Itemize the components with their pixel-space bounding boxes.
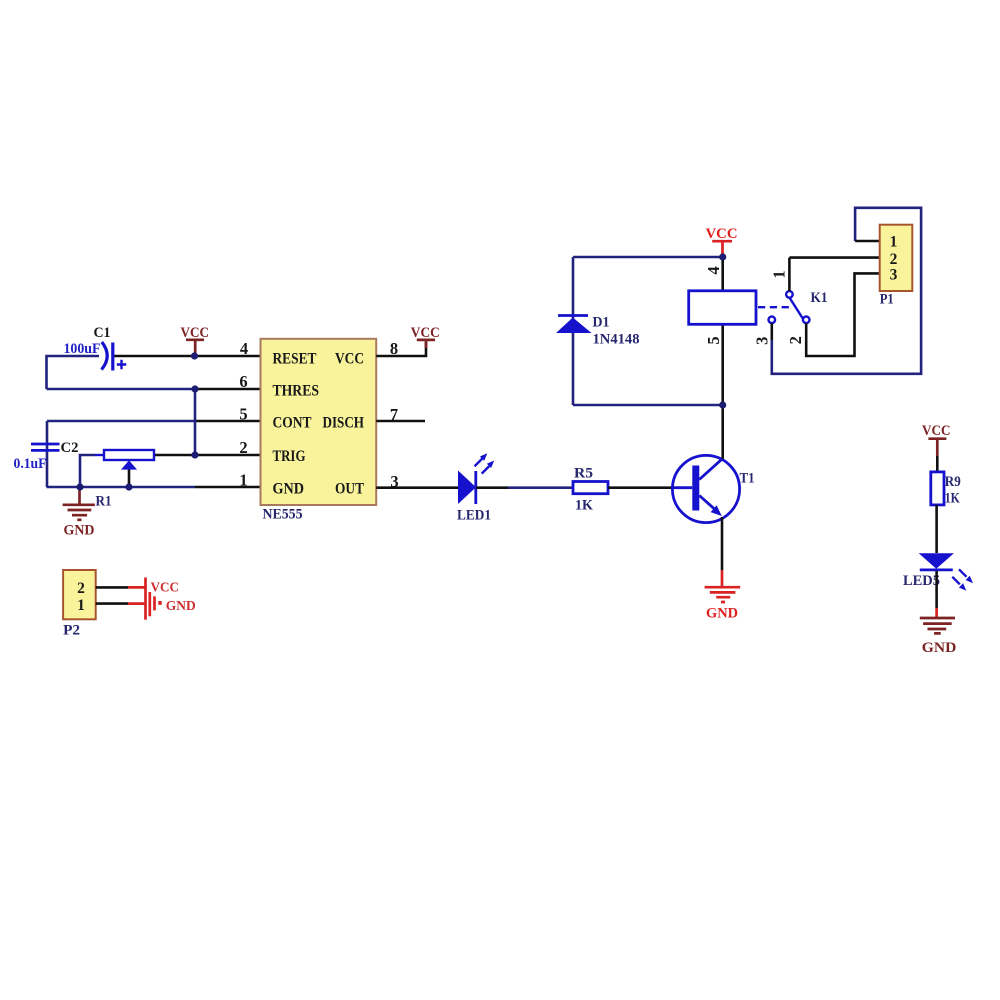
svg-text:NE555: NE555 [263,507,303,523]
svg-text:1K: 1K [945,491,960,507]
wire THRES to TRIG vertical [194,389,197,455]
wire RESET rail navy left of VCC junction [114,355,195,358]
switch K1 contacts [769,291,810,323]
wire R9 to LED5 [935,505,938,553]
relay K1 coil [689,291,756,325]
node junction pot left on GND rail [76,483,83,490]
wire switch pin3 loop to P1 pin1 [772,208,921,374]
svg-text:5: 5 [239,405,247,424]
svg-text:4: 4 [704,266,723,274]
LED LED5 [919,553,973,591]
svg-text:VCC: VCC [335,351,364,368]
transistor Q1 T1 [672,455,739,522]
power VCC at relay [706,226,738,257]
capacitor C2 [31,444,60,450]
wire CONT pin stub black to pin 5 [195,420,261,423]
svg-text:R5: R5 [574,465,593,481]
svg-text:DISCH: DISCH [323,415,365,432]
wire pot left blue stub [95,454,104,456]
node junction at VCC/RESET [191,352,198,359]
wire pot wiper stem [128,469,131,487]
ground GND at T1 [705,570,741,621]
wire R5 to T1 base [608,486,673,489]
svg-text:VCC: VCC [706,226,738,242]
connector P2 [63,570,96,619]
wire D1 branch vertical [572,257,575,405]
wire LED1 to R5 black then navy [476,486,508,489]
power VCC at R9 [922,423,951,456]
svg-text:LED1: LED1 [457,507,491,523]
wire pin 7 DISCH stub [376,420,425,423]
svg-text:6: 6 [239,372,247,391]
ground GND at R9 branch [920,608,957,656]
svg-text:1: 1 [890,233,898,250]
svg-text:C2: C2 [61,440,79,456]
wire pot left lead down to GND rail [80,455,95,487]
svg-text:K1: K1 [811,290,828,306]
node junction TRIG [191,451,198,458]
node junction THRES [191,385,198,392]
wire P2 pin2 red to VCC [128,586,146,589]
svg-text:1: 1 [239,471,247,490]
svg-text:3: 3 [753,337,772,345]
wire coil vertical black [721,257,724,405]
wire dashed coil to switch [758,306,789,308]
svg-text:GND: GND [64,523,95,539]
resistor R5 [573,482,608,494]
wire switch pin3 stub [770,323,773,340]
wire TRIG rail black from pot to chip pin 2 [154,454,261,457]
op-amp U1 NE555 chip body [261,339,377,505]
svg-text:T1: T1 [740,470,755,486]
svg-text:1K: 1K [575,498,593,514]
LED LED1 [458,453,494,504]
svg-text:4: 4 [240,339,248,358]
wire RESET rail black pin stub to chip pin 4 [195,355,261,358]
wire THRES pin stub black to pin 6 [195,388,261,391]
svg-text:TRIG: TRIG [273,448,306,465]
svg-text:VCC: VCC [151,580,180,595]
wire VCC to R9 [936,456,939,472]
wire T1 collector up [721,405,724,459]
svg-text:CONT: CONT [273,415,313,432]
wire switch pin1 to P1 pin2 [789,258,879,291]
wire C1 left lead [47,356,100,389]
diode D1 1N4148 [556,316,592,334]
wire relay top rail [573,256,723,259]
svg-text:2: 2 [77,580,85,597]
ground GND at P2 [150,592,196,616]
resistor R9 [931,472,944,505]
svg-text:100uF: 100uF [64,341,101,357]
svg-text:1: 1 [77,597,85,614]
svg-text:GND: GND [166,599,196,614]
wire pin 8 to VCC [376,342,426,356]
svg-text:P2: P2 [63,622,80,638]
svg-text:1N4148: 1N4148 [593,331,640,347]
ground GND at R1 [63,487,95,539]
svg-text:GND: GND [273,481,305,498]
wire LED5 to GND [935,571,938,608]
wire P1 pin1 stub [855,240,880,243]
wire relay bottom rail [573,404,723,407]
power VCC at pin 8 [411,325,440,348]
svg-text:C1: C1 [94,325,111,341]
svg-text:VCC: VCC [922,423,951,439]
wire GND rail navy [47,486,196,489]
svg-text:3: 3 [890,267,898,284]
svg-text:THRES: THRES [273,382,320,399]
wire THRES rail navy [47,388,196,391]
svg-text:R1: R1 [96,494,112,510]
wire GND pin stub black to pin 1 [195,486,261,489]
node junction wiper on GND rail [125,483,132,490]
svg-text:2: 2 [890,251,898,268]
wire CONT rail navy [47,420,195,423]
svg-text:GND: GND [922,640,957,656]
svg-text:LED5: LED5 [903,573,940,589]
svg-text:RESET: RESET [273,351,318,368]
power VCC at P2 [146,578,180,620]
svg-text:OUT: OUT [335,481,365,498]
svg-text:P1: P1 [880,291,894,307]
svg-text:GND: GND [706,605,738,621]
svg-text:2: 2 [239,438,247,457]
wire P2 pin1 red to GND [128,602,146,605]
wire T1 emitter down [721,517,724,570]
wire P2 pin1 black [96,602,128,605]
svg-text:2: 2 [786,336,805,344]
svg-text:VCC: VCC [411,325,440,341]
svg-text:0.1uF: 0.1uF [14,456,47,472]
svg-text:D1: D1 [593,315,610,331]
wire switch pin2 to P1 pin3 [806,273,880,356]
power VCC at C1 [181,325,210,356]
svg-text:R9: R9 [945,474,961,490]
wire pin 3 OUT to LED1 [376,486,458,489]
wire P2 pin2 black [96,586,128,589]
svg-text:1: 1 [769,270,788,278]
svg-text:5: 5 [704,336,723,344]
potentiometer R1 [104,450,154,470]
node junction VCC relay [719,253,726,260]
connector P1 [880,225,913,291]
capacitor C1 [102,342,127,371]
wire C2 vertical branch [46,421,49,487]
node junction coil bottom [719,401,726,408]
